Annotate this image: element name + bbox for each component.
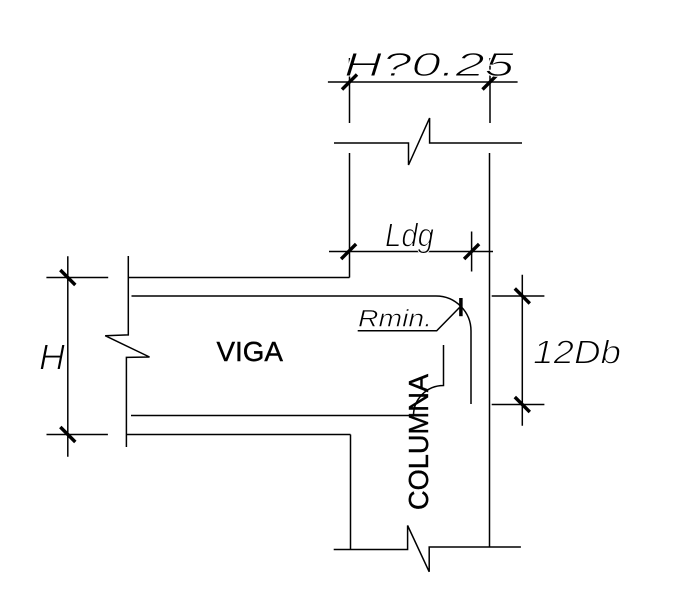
column left edge upper: [349, 153, 351, 278]
leader tick at bend: [459, 298, 463, 316]
column right edge: [489, 153, 491, 547]
extension line top of H: [46, 277, 108, 279]
column top break symbol: [334, 118, 522, 165]
beam top rebar with hook: [132, 296, 472, 404]
tick left H?0.25: [342, 75, 357, 90]
svg-text:H?0.25: H?0.25: [344, 46, 515, 83]
extension line bottom of 12Db: [492, 404, 545, 406]
svg-text:Rmin.: Rmin.: [358, 305, 432, 332]
beam bottom edge: [127, 434, 351, 436]
extension line right of H?0.25: [489, 58, 491, 123]
svg-text:Ldg: Ldg: [385, 216, 435, 253]
tick top 12Db: [515, 289, 530, 304]
column bottom break symbol: [334, 526, 521, 572]
dimension line H?0.25: [328, 81, 518, 83]
tick right Ldg: [464, 244, 479, 259]
tick left Ldg: [341, 244, 356, 259]
dimension line 12Db (vertical): [521, 275, 523, 426]
extension line left of H?0.25: [349, 58, 351, 123]
dimension line H (vertical): [67, 256, 69, 456]
leader Rmin underline: [358, 308, 460, 331]
tick top H: [60, 270, 75, 285]
extension line right of Ldg: [471, 232, 473, 272]
tick right H?0.25: [483, 75, 498, 90]
svg-text:H: H: [39, 336, 66, 377]
svg-text:COLUMNA: COLUMNA: [403, 374, 434, 510]
column left edge lower: [350, 435, 352, 550]
extension line top of 12Db: [492, 295, 545, 297]
beam bottom rebar with hook up: [131, 345, 444, 416]
tick bottom 12Db: [515, 397, 530, 412]
dimension line Ldg: [329, 251, 493, 253]
beam top edge: [128, 277, 350, 279]
extension line bottom of H: [47, 434, 108, 436]
beam end break symbol: [105, 256, 149, 447]
svg-text:VIGA: VIGA: [217, 336, 284, 367]
svg-text:12Db: 12Db: [533, 334, 621, 371]
tick bottom H: [60, 427, 75, 442]
